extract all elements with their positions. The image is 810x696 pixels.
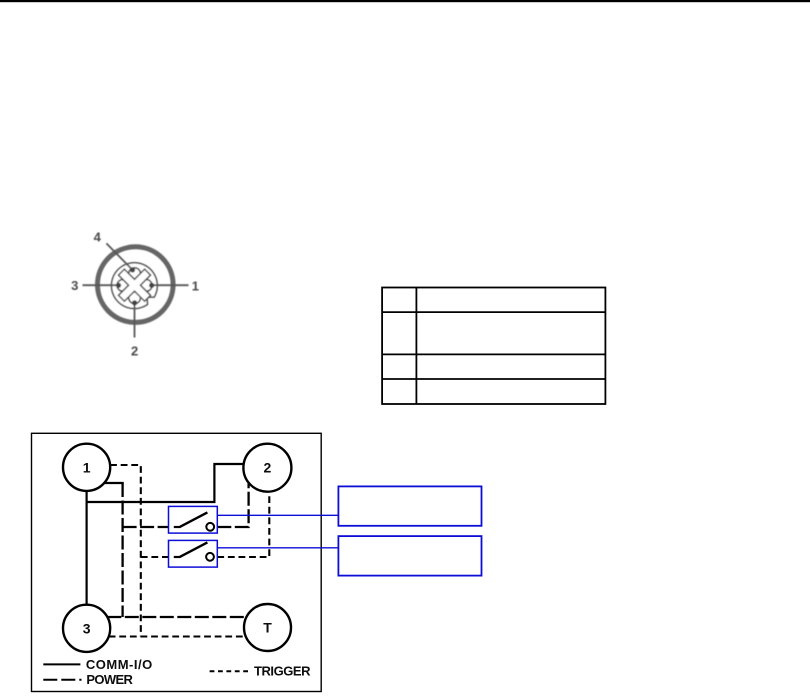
pin 4 circle: [129, 268, 141, 280]
wire TRIGGER node1 drop: [110, 465, 141, 637]
pin 2 contact dot: [132, 300, 137, 305]
wire TRIGGER switch S2 to node2: [217, 492, 269, 557]
svg-text:TRIGGER: TRIGGER: [254, 663, 311, 678]
node 2: [243, 444, 291, 492]
crosshair horizontal line pins 3-1: [83, 284, 189, 286]
blue leader line from S2: [217, 547, 338, 549]
wire POWER into switch S1: [123, 526, 169, 528]
switch S2 blade: [180, 542, 207, 556]
wire POWER node1 stub: [104, 482, 124, 484]
svg-text:1: 1: [192, 278, 199, 293]
wire TRIGGER into switch S2: [141, 556, 169, 558]
switch S2 contact circle: [206, 553, 214, 561]
pin 3 circle: [117, 280, 129, 292]
switch S1 box: [169, 506, 218, 533]
pin 4 leader line: [106, 243, 132, 269]
keyway cross X: [108, 259, 160, 311]
wire POWER node3 to nodeT: [107, 616, 246, 618]
svg-text:1: 1: [83, 459, 91, 475]
table row line 2: [382, 353, 605, 355]
node T: [244, 604, 291, 651]
svg-text:3: 3: [83, 620, 91, 636]
diagram border: [32, 433, 322, 691]
table row line 3: [382, 378, 605, 380]
table row line 1: [382, 311, 605, 313]
wire COMM-I/O node1 to node3: [85, 491, 87, 605]
svg-text:2: 2: [264, 460, 272, 476]
table column divider: [415, 288, 417, 405]
svg-text:2: 2: [131, 344, 138, 359]
svg-text:3: 3: [71, 278, 78, 293]
wire POWER switch S1 to node2: [217, 483, 248, 527]
pin 1 contact dot: [149, 283, 154, 288]
svg-text:T: T: [263, 620, 272, 636]
pin 3 contact dot: [116, 283, 121, 288]
switch S1 contact circle: [206, 523, 214, 531]
switch S1 contact stub: [174, 526, 181, 528]
switch S2 box: [169, 540, 218, 567]
legend POWER line: [43, 679, 81, 681]
wire TRIGGER node3 to nodeT: [109, 635, 246, 637]
crosshair vertical line pin 2: [134, 294, 136, 338]
blue leader line from S1: [217, 514, 338, 516]
node 3: [63, 605, 110, 652]
node 1: [63, 444, 110, 491]
wire POWER node1 drop: [121, 483, 123, 617]
header rule: [0, 0, 810, 2]
legend TRIGGER line: [210, 670, 249, 672]
wire COMM-I/O branch to node2: [87, 464, 244, 502]
pin 4 contact dot: [130, 267, 135, 272]
legend COMM-I/O line: [43, 663, 80, 665]
svg-text:COMM-I/O: COMM-I/O: [86, 657, 153, 672]
pinout table: [382, 288, 605, 405]
table outer border: [382, 288, 605, 405]
connector inner circle with keyway notch: [111, 263, 157, 309]
svg-text:4: 4: [94, 230, 102, 245]
pin 1 circle: [140, 280, 152, 292]
wiring diagram: [32, 433, 482, 691]
callout box 2: [338, 536, 481, 576]
switch S1 blade: [180, 512, 207, 526]
callout box 1: [338, 486, 481, 525]
connector M12 pinout figure: [71, 230, 199, 359]
pin 2 circle: [129, 292, 141, 304]
connector outer ring: [98, 247, 174, 323]
switch S2 contact stub: [174, 556, 181, 558]
svg-text:POWER: POWER: [86, 672, 133, 687]
